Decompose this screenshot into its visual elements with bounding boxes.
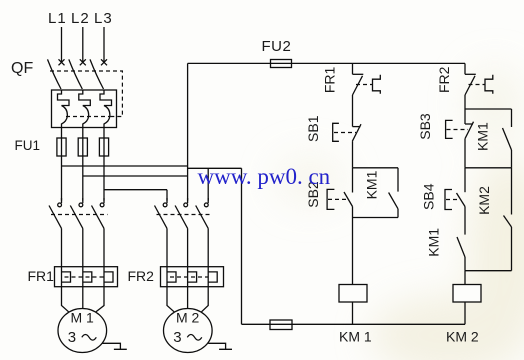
- fuse FU2: [271, 60, 292, 68]
- node junction bottom of SB4 parallel: [465, 270, 512, 272]
- control bottom rail: [242, 323, 466, 325]
- svg-text:KM1: KM1: [475, 122, 491, 151]
- breaker QF pole 3 blade: [90, 59, 104, 89]
- svg-text:KM1: KM1: [364, 170, 380, 199]
- wire KM2 pole 3 drop: [207, 168, 209, 200]
- node junction bottom of SB2 parallel: [353, 217, 399, 219]
- node junction top of SB2 parallel: [353, 167, 399, 169]
- svg-text:SB3: SB3: [417, 113, 433, 140]
- fuse FU1 pole 1: [57, 138, 66, 156]
- svg-text:KM 1: KM 1: [339, 329, 372, 345]
- svg-text:M 2: M 2: [176, 309, 200, 325]
- thermal NC contact FR1: [353, 74, 381, 95]
- motor M2: [164, 287, 213, 353]
- wire control branch 2 drop: [464, 63, 466, 74]
- button SB3 NC contact: [446, 109, 474, 168]
- breaker QF trip linkage dashed: [50, 71, 122, 117]
- wire to KM1 coil: [352, 218, 354, 285]
- fuse FU1 pole 3: [99, 138, 108, 156]
- wire feed to bottom rail: [188, 167, 242, 169]
- svg-text:QF: QF: [11, 60, 33, 77]
- wire KM2 pole 1 drop: [166, 190, 168, 201]
- breaker QF pole 2 blade: [69, 59, 83, 89]
- control top wire: [188, 62, 465, 64]
- wire FR1 to SB1: [352, 95, 354, 127]
- wire tap L3 to KM2 pole 1: [104, 189, 167, 191]
- breaker QF pole 1 release element: [58, 90, 70, 138]
- wire KM2 coil to bottom rail: [464, 302, 466, 324]
- svg-text:L1: L1: [48, 10, 67, 27]
- contactor KM2 main contact pole 3: [196, 198, 209, 267]
- contactor KM1 main contact pole 3: [92, 198, 105, 267]
- breaker QF pole 1 cross mark: [59, 59, 65, 65]
- wire phase 2 to KM1 contact: [82, 156, 84, 201]
- thermal relay FR2 heater elements: [161, 267, 224, 287]
- contactor KM1 main contact pole 2: [70, 198, 83, 267]
- ground for motor M1: [103, 343, 127, 349]
- svg-text:3: 3: [68, 329, 76, 346]
- coil KM2: [453, 285, 481, 303]
- svg-text:KM2: KM2: [476, 186, 492, 215]
- wire L3 supply drop: [103, 27, 105, 63]
- breaker QF pole 2 release element: [79, 90, 91, 138]
- wire control branch 1 drop: [352, 63, 354, 74]
- wire KM2 pole 2 drop / control riser: [187, 63, 189, 200]
- wire phase 1 to KM1 contact: [61, 156, 63, 201]
- ground for motor M2: [208, 343, 232, 349]
- contactor KM2 main contact pole 2: [175, 198, 188, 267]
- stop button SB1 NC contact: [333, 123, 361, 141]
- svg-text:www. pw0. cn: www. pw0. cn: [198, 164, 331, 189]
- svg-text:SB1: SB1: [305, 115, 321, 142]
- svg-text:L3: L3: [94, 10, 113, 27]
- wire phase 3 to KM1 contact: [103, 156, 105, 201]
- breaker QF internal trip dashed: [66, 116, 110, 118]
- breaker QF pole 1 blade: [48, 59, 62, 89]
- breaker QF release box: [52, 90, 117, 128]
- svg-text:FU1: FU1: [15, 138, 41, 153]
- svg-text:M 1: M 1: [71, 309, 95, 325]
- wire SB1 to start node: [352, 141, 354, 168]
- node junction top of SB4 parallel: [465, 167, 512, 169]
- svg-text:L2: L2: [71, 10, 90, 27]
- thermal NC contact FR2: [465, 74, 493, 95]
- wire tap L2 feed: [83, 175, 188, 177]
- node junction top of SB3 parallel: [465, 108, 512, 110]
- breaker QF pole 2 cross mark: [80, 59, 86, 65]
- contactor KM1 main contact pole 1: [49, 198, 62, 267]
- KM1 main contacts linkage dashed: [51, 214, 108, 216]
- svg-text:FR1: FR1: [28, 268, 55, 284]
- svg-text:FR2: FR2: [436, 66, 452, 93]
- wire L2 supply drop: [82, 27, 84, 63]
- breaker QF pole 3 release element: [100, 90, 112, 138]
- wire L1 supply drop: [61, 27, 63, 63]
- start button SB4 NO contact: [445, 168, 465, 235]
- svg-text:SB4: SB4: [420, 183, 436, 210]
- svg-text:FU2: FU2: [262, 38, 292, 55]
- wire KM1 coil to bottom rail: [352, 302, 354, 324]
- svg-text:FR2: FR2: [128, 268, 155, 284]
- auxiliary contact KM1 upper right: [503, 109, 512, 168]
- wire tap L1 to control feed: [62, 165, 188, 167]
- svg-text:FR1: FR1: [322, 66, 338, 93]
- wire left rail of control to bottom: [241, 168, 243, 324]
- start button SB2 NO contact: [327, 168, 352, 218]
- motor M1: [58, 287, 107, 353]
- KM2 main contacts linkage dashed: [157, 214, 213, 216]
- svg-text:KM1: KM1: [426, 228, 442, 257]
- coil KM1: [339, 285, 367, 303]
- contactor KM2 main contact pole 1: [155, 198, 168, 267]
- wire FR2 to node: [464, 95, 466, 109]
- auxiliary self-holding contact KM1: [389, 168, 398, 218]
- thermal relay FR1 heater elements: [55, 267, 118, 287]
- fuse FU1 pole 2: [78, 138, 87, 156]
- breaker QF pole 3 cross mark: [101, 59, 107, 65]
- svg-text:KM 2: KM 2: [446, 329, 479, 345]
- svg-text:3: 3: [173, 329, 181, 346]
- interlock NO contact KM1: [457, 237, 465, 271]
- auxiliary self-holding contact KM2: [504, 168, 512, 271]
- wire to KM2 coil: [464, 271, 466, 285]
- fuse on bottom rail: [270, 320, 292, 330]
